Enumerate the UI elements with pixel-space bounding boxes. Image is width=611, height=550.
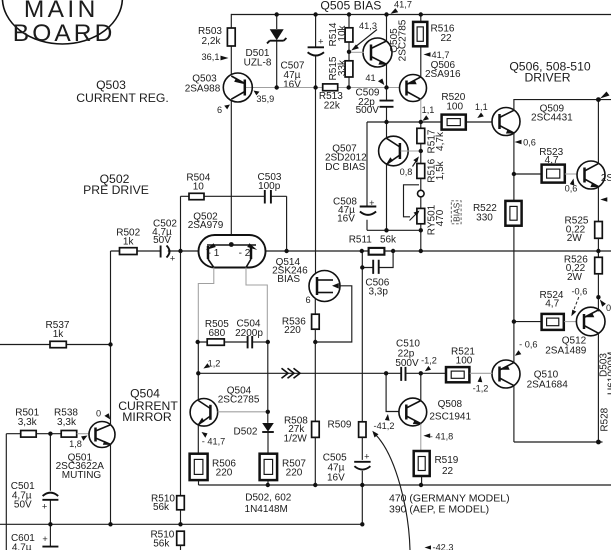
node 1,1 annotation (Q506 collector) bbox=[422, 105, 435, 121]
wire to stadium bar bbox=[230, 196, 232, 244]
resistor R524 boxed bbox=[514, 290, 564, 330]
svg-text:Q503: Q503 bbox=[96, 78, 126, 92]
svg-text:R519: R519 bbox=[434, 455, 458, 466]
wire Q510 collector down bbox=[513, 386, 515, 442]
svg-text:+: + bbox=[369, 198, 374, 208]
wire y=174 bbox=[514, 173, 541, 175]
label Q507 2SD2012 DC BIAS bbox=[325, 143, 367, 173]
wire y=230 C508 to RY501 bbox=[367, 229, 421, 231]
svg-text:1,1: 1,1 bbox=[475, 102, 488, 112]
svg-text:2SC1941: 2SC1941 bbox=[429, 412, 471, 423]
note 470/390 models bbox=[389, 493, 510, 516]
svg-text:50V: 50V bbox=[153, 235, 171, 246]
svg-text:- 1: - 1 bbox=[208, 248, 220, 259]
capacitor C501 bbox=[11, 434, 59, 525]
svg-text:+: + bbox=[318, 37, 323, 47]
svg-text:470: 470 bbox=[435, 209, 446, 226]
resistor R537 bbox=[0, 320, 111, 348]
node 35,9 annotation bbox=[254, 91, 275, 105]
node 1,8 annotation (Q501) bbox=[69, 436, 87, 450]
node -42,3 annotation bbox=[425, 543, 454, 550]
wire Q505 collector bbox=[386, 15, 388, 42]
resistor R522 boxed bbox=[473, 174, 522, 322]
capacitor C503 bbox=[258, 172, 287, 251]
section label Q503 CURRENT REG. bbox=[76, 78, 169, 105]
svg-text:MUTING: MUTING bbox=[62, 470, 102, 481]
section label Q504 CURRENT MIRROR bbox=[118, 387, 178, 425]
svg-text:22: 22 bbox=[440, 33, 452, 44]
wire Q512 collector down bbox=[597, 333, 599, 442]
svg-text:56k: 56k bbox=[153, 539, 170, 550]
wire bottom bus y=524.3 bbox=[0, 523, 362, 525]
node 41,7 arrow at right rail bbox=[600, 92, 610, 99]
node 41 annotation bbox=[365, 73, 384, 85]
node 1,2 annotation bbox=[203, 359, 220, 369]
svg-text:1,1: 1,1 bbox=[422, 105, 435, 115]
svg-text:16V: 16V bbox=[327, 472, 345, 483]
svg-text:35,9: 35,9 bbox=[256, 94, 274, 104]
svg-text:41,3: 41,3 bbox=[359, 21, 377, 31]
wire y=442 bbox=[514, 441, 603, 443]
svg-text:41,7: 41,7 bbox=[394, 0, 412, 10]
node 41,7 annotation (Q506 emitter) bbox=[424, 50, 450, 60]
wire Q510 emitter up bbox=[513, 322, 515, 363]
capacitor C502 bbox=[152, 218, 177, 263]
svg-text:CURRENT REG.: CURRENT REG. bbox=[76, 91, 169, 105]
wire rail x=180.5 lower bbox=[180, 251, 182, 496]
resistor R513 bbox=[319, 84, 343, 112]
svg-text:100: 100 bbox=[456, 355, 473, 366]
chevrons on signal wire bbox=[282, 368, 301, 378]
svg-text:2SA916: 2SA916 bbox=[425, 69, 461, 80]
svg-text:1N4148M: 1N4148M bbox=[245, 504, 288, 515]
transistor Q512 bbox=[545, 307, 605, 356]
svg-text:2W: 2W bbox=[567, 272, 583, 283]
resistor R516 (22) boxed bbox=[413, 15, 455, 77]
svg-text:2S: 2S bbox=[601, 173, 611, 184]
wire x=362.3 to bottom bus bbox=[361, 485, 363, 524]
svg-text:0,6: 0,6 bbox=[523, 138, 536, 148]
wire Q504 emitter bbox=[197, 425, 199, 453]
svg-text:220: 220 bbox=[286, 467, 303, 478]
resistor R508 bbox=[284, 415, 320, 485]
node 0,6 annotation (Q511) bbox=[565, 179, 578, 194]
transistor Q509 bbox=[492, 103, 573, 135]
wire top rail y=14.5 bbox=[231, 14, 611, 16]
svg-text:BOARD: BOARD bbox=[13, 20, 116, 47]
svg-text:- 41,7: - 41,7 bbox=[202, 437, 226, 447]
svg-text:3,3p: 3,3p bbox=[368, 287, 388, 298]
node -1,2 annotation (left of R521) bbox=[421, 356, 437, 372]
wire rail x=110.5 upper bbox=[110, 251, 112, 345]
wire stadium left exit (gray step) bbox=[198, 268, 214, 343]
svg-text:3,3k: 3,3k bbox=[57, 417, 77, 428]
svg-text:0: 0 bbox=[96, 408, 101, 418]
svg-text:-1,2: -1,2 bbox=[421, 356, 437, 366]
wire base line y=87.5 bbox=[246, 87, 400, 89]
resistor R503 bbox=[198, 26, 235, 47]
resistor R502 bbox=[116, 228, 140, 255]
svg-text:MIRROR: MIRROR bbox=[122, 410, 172, 424]
wire Q508 collector bbox=[420, 373, 422, 400]
svg-text:56k: 56k bbox=[153, 502, 170, 513]
node 41,3 annotation with arrow bbox=[351, 21, 377, 51]
svg-text:2SC4431: 2SC4431 bbox=[531, 113, 573, 124]
resistor R536 bbox=[282, 314, 319, 342]
node 0,6 annotation (Q507) bbox=[400, 156, 419, 177]
section label Q502 PRE DRIVE bbox=[83, 172, 149, 197]
transistor Q502 (dual) stadium bbox=[199, 235, 266, 268]
transistor Q505 bbox=[349, 19, 409, 67]
svg-text:33k: 33k bbox=[337, 59, 348, 76]
svg-text:R528: R528 bbox=[599, 407, 610, 431]
resistor R509 bbox=[328, 420, 366, 460]
svg-text:- 41,8: - 41,8 bbox=[430, 432, 454, 442]
resistor R506 boxed bbox=[190, 454, 237, 485]
svg-text:-1,2: -1,2 bbox=[473, 384, 489, 394]
wire R526 to Q512 bbox=[597, 274, 599, 312]
capacitor C504 bbox=[235, 319, 268, 349]
wire Q509 collector to top bbox=[514, 100, 611, 111]
svg-text:16V: 16V bbox=[337, 213, 355, 224]
svg-text:22: 22 bbox=[442, 466, 454, 477]
svg-text:1,5k: 1,5k bbox=[435, 160, 446, 180]
svg-text:+: + bbox=[42, 502, 47, 512]
svg-text:-41,2: -41,2 bbox=[374, 421, 395, 431]
BIAS dashed label bbox=[451, 201, 461, 224]
svg-text:2200p: 2200p bbox=[235, 328, 263, 339]
wire Q507 emitter bbox=[386, 165, 388, 231]
wire stadium right exit (gray step) bbox=[246, 268, 267, 343]
resistor R526 bbox=[564, 255, 602, 283]
label Q502 2SA979 bbox=[188, 211, 224, 231]
capacitor C508 bbox=[333, 122, 376, 230]
transistor Q504 bbox=[190, 373, 268, 426]
svg-text:4,7k: 4,7k bbox=[435, 131, 446, 151]
transistor Q511 bbox=[565, 161, 611, 189]
wire Q501 collector bbox=[110, 345, 112, 425]
resistor R505 bbox=[198, 319, 248, 345]
transistor Q506 bbox=[400, 60, 462, 102]
svg-text:390 (AEP, E MODEL): 390 (AEP, E MODEL) bbox=[389, 503, 489, 515]
diode D501 (zener UZL-8) bbox=[244, 15, 287, 88]
svg-text:2SA1489: 2SA1489 bbox=[545, 346, 587, 357]
svg-text:1k: 1k bbox=[123, 237, 135, 248]
curved arrow annotation bbox=[372, 431, 410, 550]
resistor R517 bbox=[417, 122, 446, 153]
svg-text:D502, 602: D502, 602 bbox=[245, 493, 292, 504]
svg-text:2SA979: 2SA979 bbox=[188, 220, 224, 231]
label D502,602 1N4148M bbox=[245, 493, 292, 516]
transistor Q501 bbox=[56, 422, 115, 481]
svg-text:220: 220 bbox=[284, 325, 301, 336]
svg-text:56k: 56k bbox=[380, 235, 397, 246]
resistor R501 bbox=[6, 408, 61, 438]
svg-text:- 2: - 2 bbox=[239, 248, 251, 259]
resistor R511 bbox=[349, 235, 397, 255]
node -1,2 annotation (right of R521) bbox=[473, 376, 489, 394]
wire R525-R526 bbox=[597, 238, 599, 257]
svg-text:PRE DRIVE: PRE DRIVE bbox=[83, 183, 149, 197]
svg-text:41,7: 41,7 bbox=[432, 50, 450, 60]
svg-text:Q505 BIAS: Q505 BIAS bbox=[320, 0, 381, 12]
svg-text:4,7: 4,7 bbox=[545, 155, 559, 166]
resistor R525 bbox=[565, 215, 603, 244]
svg-text:220: 220 bbox=[216, 467, 233, 478]
capacitor C506 bbox=[362, 251, 393, 298]
node -41,8 annotation bbox=[423, 432, 453, 442]
capacitor C601 bbox=[11, 524, 58, 550]
diode D502 bbox=[234, 423, 274, 453]
resistor R520 boxed bbox=[441, 92, 465, 130]
wire y=251 main rail left bbox=[111, 250, 199, 252]
svg-text:+: + bbox=[364, 452, 369, 462]
svg-text:2SC2785: 2SC2785 bbox=[398, 19, 409, 61]
svg-text:680: 680 bbox=[208, 328, 225, 339]
node 0 annotation (Q501) bbox=[96, 408, 110, 419]
svg-text:36,1: 36,1 bbox=[202, 52, 220, 62]
node 1,1 annotation (Q509 base) bbox=[475, 102, 488, 118]
node 0,6 annotation (Q509) bbox=[515, 138, 536, 148]
label D503 U61000M (rotated, clipped right) bbox=[598, 352, 611, 395]
rheostat RY501 bbox=[404, 185, 447, 235]
transistor Q510 bbox=[492, 360, 568, 391]
resistor R519 boxed bbox=[414, 451, 459, 485]
svg-text:DRIVER: DRIVER bbox=[524, 71, 570, 85]
wire x=267.8 column bbox=[267, 342, 269, 423]
wire y=251 main rail right bbox=[266, 250, 611, 252]
svg-text:4,7µ: 4,7µ bbox=[12, 543, 32, 550]
svg-text:BIAS: BIAS bbox=[277, 274, 300, 285]
svg-text:U61000M: U61000M bbox=[607, 352, 611, 395]
svg-text:1/2W: 1/2W bbox=[284, 433, 308, 444]
svg-text:2W: 2W bbox=[567, 233, 583, 244]
svg-text:10k: 10k bbox=[337, 24, 348, 41]
resistor R523 boxed bbox=[539, 147, 565, 183]
wire Q511 emitter bbox=[597, 187, 599, 222]
node -41,7 annotation (Q504) bbox=[202, 432, 226, 447]
resistor R504 bbox=[181, 173, 265, 252]
svg-text:6: 6 bbox=[217, 105, 222, 115]
resistor R516 (1,5k) bbox=[417, 151, 446, 190]
node 36,1 annotation bbox=[202, 52, 229, 62]
resistor R521 boxed bbox=[446, 346, 492, 382]
resistor R510 (upper) bbox=[151, 494, 184, 525]
svg-text:+: + bbox=[170, 254, 175, 264]
wire Q507 collector bbox=[386, 122, 388, 139]
svg-text:DC BIAS: DC BIAS bbox=[325, 162, 365, 173]
transistor Q503 bbox=[185, 73, 253, 102]
capacitor C505 bbox=[323, 452, 371, 486]
svg-text:Q508: Q508 bbox=[438, 399, 463, 410]
wire Q501 emitter bbox=[110, 445, 112, 525]
svg-text:100p: 100p bbox=[258, 181, 281, 192]
svg-text:R509: R509 bbox=[328, 420, 352, 431]
wire Q509 emitter bbox=[513, 133, 515, 174]
node -0,6 annotation (Q512 base) bbox=[571, 287, 587, 317]
wire Q511 collector bbox=[597, 100, 599, 164]
svg-text:1,8: 1,8 bbox=[69, 439, 82, 449]
resistor R510 (lower) bbox=[150, 530, 184, 550]
test point circle (RY501 top) bbox=[418, 190, 425, 197]
svg-text:22k: 22k bbox=[324, 101, 341, 112]
wire RY501 down to main rail bbox=[420, 230, 422, 251]
wire left rail x=6.3 bbox=[5, 434, 7, 550]
resistor R514 bbox=[328, 15, 353, 52]
svg-text:10: 10 bbox=[193, 182, 205, 193]
svg-text:50V: 50V bbox=[14, 499, 32, 510]
svg-text:330: 330 bbox=[476, 213, 493, 224]
svg-text:D502: D502 bbox=[234, 427, 258, 438]
svg-text:0,6: 0,6 bbox=[565, 184, 578, 194]
node 41,7 annotation top bbox=[391, 0, 412, 14]
svg-text:41: 41 bbox=[365, 73, 375, 83]
wire R536 column crossing bbox=[314, 342, 316, 421]
wire ground bus y=485 bbox=[199, 484, 611, 486]
resistor R507 boxed bbox=[260, 454, 307, 485]
svg-text:500V: 500V bbox=[356, 105, 380, 116]
wire Q503 collector lower bbox=[230, 101, 232, 197]
wire Q506 collector bbox=[420, 99, 422, 122]
wire R503 column bbox=[230, 14, 232, 75]
svg-text:2SA988: 2SA988 bbox=[185, 83, 221, 94]
svg-text:-42,3: -42,3 bbox=[433, 543, 454, 550]
svg-text:1k: 1k bbox=[53, 329, 65, 340]
svg-text:0,8: 0,8 bbox=[400, 167, 413, 177]
svg-text:0: 0 bbox=[606, 303, 611, 313]
wire rail x=362.3 down bbox=[361, 268, 363, 422]
capacitor C507 bbox=[281, 15, 324, 91]
wire Q505 emitter bbox=[386, 65, 388, 88]
wire rail x=198.3 bbox=[197, 342, 199, 373]
svg-text:2,2k: 2,2k bbox=[202, 36, 222, 47]
MAIN BOARD stamp ellipse bbox=[2, 0, 122, 47]
svg-text:500V: 500V bbox=[395, 358, 419, 369]
svg-text:BIAS: BIAS bbox=[452, 202, 462, 221]
capacitor C509 bbox=[356, 88, 394, 123]
section label Q506,508-510 DRIVER bbox=[509, 60, 591, 85]
wire y=373 signal bbox=[198, 372, 401, 374]
capacitor C510 bbox=[395, 339, 445, 381]
svg-text:6: 6 bbox=[305, 295, 310, 305]
resistor R515 bbox=[328, 52, 353, 88]
svg-text:4,7: 4,7 bbox=[545, 298, 559, 309]
node -41,2 annotation bbox=[374, 414, 395, 431]
svg-text:16V: 16V bbox=[283, 80, 301, 91]
svg-text:2SC2785: 2SC2785 bbox=[218, 395, 260, 406]
svg-text:UZL-8: UZL-8 bbox=[244, 58, 272, 69]
node -0,6 annotation (Q510) bbox=[515, 340, 538, 356]
svg-text:3,3k: 3,3k bbox=[18, 417, 38, 428]
wire y=122 bbox=[367, 121, 492, 123]
node 6 annotation (Q503) bbox=[217, 105, 230, 116]
node annotation arrow at (598,297) bbox=[600, 300, 611, 314]
svg-text:+: + bbox=[42, 534, 47, 544]
transistor Q508 bbox=[386, 373, 471, 426]
wire Q508 emitter bbox=[420, 424, 422, 451]
transistor Q514 (JFET) bbox=[272, 88, 352, 343]
svg-text:100: 100 bbox=[446, 102, 463, 113]
svg-text:2SA1684: 2SA1684 bbox=[527, 380, 569, 391]
svg-text:R511: R511 bbox=[349, 235, 373, 246]
resistor R538 bbox=[54, 408, 89, 438]
svg-text:- 0,6: - 0,6 bbox=[519, 340, 537, 350]
arrow annotation right edge y=199 bbox=[600, 197, 607, 202]
svg-text:-0,6: -0,6 bbox=[571, 287, 587, 297]
transistor Q507 bbox=[379, 136, 421, 166]
